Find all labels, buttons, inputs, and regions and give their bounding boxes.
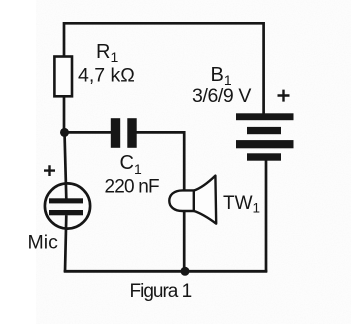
speaker TW1 driver: [169, 190, 194, 211]
svg-text:220 nF: 220 nF: [105, 177, 160, 198]
svg-text:Figura 1: Figura 1: [130, 281, 192, 302]
svg-text:Mic: Mic: [28, 232, 59, 254]
battery B1 plates: [236, 113, 294, 120]
wire: bottom rail: [64, 270, 268, 273]
speaker TW1 horn: [194, 176, 217, 224]
wire: C1 right plate to speaker branch, down to bottom rail: [136, 132, 185, 272]
wire: R1 bottom to node: [63, 95, 66, 133]
capacitor C1 plates: [111, 118, 120, 148]
node: junction dot at R1/C1/mic: [60, 128, 69, 137]
svg-text:4,7 kΩ: 4,7 kΩ: [78, 65, 135, 87]
microphone Mic circle: [45, 183, 90, 228]
polarity + at mic: [44, 165, 55, 176]
wire: node to mic top: [65, 132, 67, 199]
wire: node to capacitor C1 left plate: [64, 131, 112, 134]
wire: top rail from R1 top, across, down to battery +: [64, 23, 264, 114]
polarity + at battery: [278, 90, 290, 102]
resistor R1: [54, 57, 72, 97]
wire: battery - terminal down to bottom rail: [265, 161, 268, 273]
microphone electret plates: [49, 198, 83, 203]
svg-text:3/6/9 V: 3/6/9 V: [192, 85, 251, 107]
node: junction dot at speaker branch on bottom rail: [181, 267, 190, 276]
wire: mic bottom to bottom rail: [65, 215, 66, 272]
